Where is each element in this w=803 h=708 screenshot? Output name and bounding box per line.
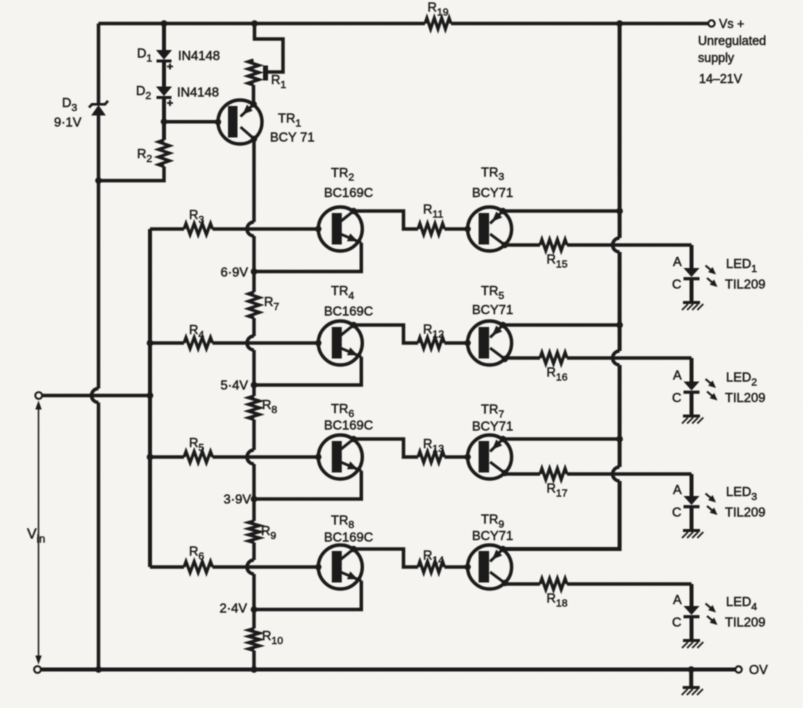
- resistor R8: [249, 396, 260, 420]
- node left vertical / 0V rail: [95, 666, 102, 673]
- transistor TR6: [315, 435, 362, 479]
- wire divider to R7: [252, 236, 256, 292]
- resistor R6: [184, 562, 213, 573]
- svg-text:BC169C: BC169C: [324, 529, 373, 544]
- resistor R16: [540, 353, 567, 364]
- resistor R3: [184, 224, 213, 235]
- wire TR7 collector to R17: [504, 473, 540, 474]
- svg-text:2·4V: 2·4V: [220, 601, 248, 616]
- svg-text:A: A: [673, 592, 682, 607]
- wire R10 to 0V rail: [252, 651, 256, 670]
- wire Vin to input bus: [42, 394, 150, 398]
- wire TR1 collector to divider: [252, 139, 256, 222]
- node supply bus / TR5 emitter: [616, 322, 623, 329]
- svg-text:5·4V: 5·4V: [221, 378, 249, 393]
- node supply bus / TR3 emitter: [616, 208, 623, 215]
- wire R1 wiper hook: [255, 24, 284, 73]
- wire supply bus seg4: [503, 481, 620, 549]
- paper grain: [0, 0, 1, 1]
- svg-text:TIL209: TIL209: [725, 505, 765, 520]
- wire TR3 emitter to supply bus: [503, 209, 620, 213]
- svg-text:A: A: [673, 254, 682, 269]
- wire TR2 collector: [354, 211, 418, 229]
- wire TR2 emitter to 6.9V tap: [254, 243, 361, 272]
- resistor R12: [418, 338, 445, 349]
- svg-text:3·9V: 3·9V: [224, 492, 252, 507]
- polarity + D1: [167, 64, 173, 70]
- node tap 2.4V: [251, 606, 258, 613]
- svg-text:A: A: [673, 482, 682, 497]
- wiper contact R1: [263, 66, 268, 81]
- ground 0V rail: [682, 670, 703, 696]
- wire LED3 anode: [690, 474, 694, 496]
- wire diode chain middle: [162, 61, 166, 87]
- svg-text:OV: OV: [749, 662, 768, 677]
- diode D1: [156, 50, 172, 60]
- svg-text:6·9V: 6·9V: [221, 265, 249, 280]
- resistor R7: [249, 292, 260, 318]
- svg-text:IN4148: IN4148: [178, 48, 220, 63]
- svg-text:C: C: [672, 505, 681, 520]
- wire supply bus seg3: [618, 365, 622, 467]
- resistor R11: [418, 224, 445, 235]
- svg-text:BC169C: BC169C: [324, 185, 373, 200]
- svg-text:C: C: [672, 277, 681, 292]
- wire hop divider over row2 base: [247, 336, 254, 350]
- wire left vertical upper: [97, 24, 101, 104]
- LED1 TIL209: [684, 266, 718, 288]
- resistor R4: [184, 338, 213, 349]
- wire diode chain bottom: [162, 98, 166, 141]
- wire input bus to R5: [150, 455, 184, 459]
- node input bus / Vin: [147, 392, 154, 399]
- wire R8 to R9: [252, 420, 256, 451]
- resistor R9: [249, 521, 260, 543]
- wire top supply rail: [99, 22, 426, 26]
- svg-text:TIL209: TIL209: [725, 277, 765, 292]
- wire R11 to TR3 base: [445, 227, 468, 231]
- svg-text:C: C: [672, 615, 681, 630]
- transistor TR2: [315, 207, 362, 251]
- svg-text:TIL209: TIL209: [725, 615, 765, 630]
- wire input bus corner to R3: [150, 227, 184, 231]
- transistor TR8: [315, 545, 362, 589]
- node input bus / R5: [147, 454, 154, 461]
- zener diode D3: [91, 105, 106, 116]
- wire LED2 cathode: [690, 392, 694, 416]
- svg-text:Vs +: Vs +: [719, 17, 744, 31]
- wire LED4 anode: [690, 584, 694, 606]
- svg-text:BCY 71: BCY 71: [270, 130, 315, 145]
- wire TR5 collector to R16: [504, 358, 540, 359]
- svg-text:14–21V: 14–21V: [699, 72, 743, 86]
- svg-text:BCY71: BCY71: [472, 528, 513, 543]
- wire LED1 anode: [690, 245, 694, 268]
- resistor R17: [540, 469, 567, 480]
- transistor TR1: [215, 100, 262, 144]
- wire TR7 emitter to supply bus: [503, 437, 620, 441]
- node D2 / R2 / TR1 base: [161, 118, 168, 125]
- svg-text:TIL209: TIL209: [725, 390, 765, 405]
- svg-text:IN4148: IN4148: [177, 85, 219, 100]
- resistor R10: [249, 629, 260, 651]
- wire TR5 emitter to supply bus: [503, 323, 620, 327]
- wire hop supply bus over LED2 wire: [613, 351, 620, 365]
- svg-text:supply: supply: [698, 51, 735, 65]
- wire R7 to R8: [252, 318, 256, 336]
- wire left vertical mid: [97, 116, 101, 389]
- wire R3 to TR2 base: [213, 227, 319, 231]
- transistor TR9: [464, 545, 511, 589]
- ground LED2: [682, 416, 703, 424]
- wire hop divider over row4 base: [247, 560, 254, 574]
- resistor R19: [425, 18, 451, 29]
- ground LED4: [682, 641, 703, 649]
- LED3 TIL209: [684, 494, 718, 516]
- wire TR6 collector: [354, 439, 418, 457]
- dimension arrow Vin: [38, 405, 40, 660]
- wire supply bus seg2: [618, 252, 622, 351]
- svg-text:A: A: [673, 368, 682, 383]
- wire TR8 emitter to 2.4V tap: [254, 581, 361, 610]
- terminal Vin bottom: [34, 666, 41, 673]
- terminal Vs+: [708, 20, 714, 26]
- transistor TR7: [464, 435, 511, 479]
- node R2 / left vertical: [95, 177, 102, 184]
- wire TR9 collector to R18: [504, 583, 540, 584]
- wire R17 to LED3: [567, 472, 692, 476]
- transistor TR3: [464, 207, 511, 251]
- wire diode chain top: [162, 24, 166, 51]
- wire TR9 emitter to supply bus: [503, 547, 620, 551]
- resistor R1: [248, 60, 259, 85]
- wire hop supply bus over LED3 wire: [613, 467, 620, 481]
- svg-text:BCY71: BCY71: [472, 302, 513, 317]
- resistor R14: [418, 562, 445, 573]
- node tap 6.9V: [251, 268, 258, 275]
- wire R2 to left vertical: [99, 167, 165, 181]
- transistor TR4: [315, 321, 362, 365]
- polarity + D2: [167, 100, 173, 106]
- wire R14 to TR9 base: [445, 565, 468, 569]
- wire R15 to LED1: [567, 243, 692, 247]
- node supply bus / TR7 emitter: [616, 436, 623, 443]
- ground LED1: [682, 303, 703, 311]
- wire 0V rail: [41, 668, 735, 672]
- node input bus / R4: [147, 340, 154, 347]
- wire divider above R10: [252, 574, 256, 629]
- wire R12 to TR5 base: [445, 341, 468, 345]
- wire LED2 anode: [690, 358, 694, 382]
- wire input bus to R4: [150, 341, 184, 345]
- LED4 TIL209: [684, 604, 718, 626]
- svg-text:Unregulated: Unregulated: [698, 34, 766, 48]
- wire R16 to LED2: [567, 356, 692, 360]
- node tap 5.4V: [251, 382, 258, 389]
- node top rail / R1: [251, 20, 258, 27]
- resistor R5: [184, 452, 213, 463]
- resistor R2: [159, 140, 170, 167]
- resistor R18: [540, 579, 567, 590]
- svg-text:BC169C: BC169C: [324, 417, 373, 432]
- node top rail / supply bus: [616, 20, 623, 27]
- node ground / 0V rail: [688, 666, 695, 673]
- node tap 3.9V: [251, 496, 258, 503]
- wire LED4 cathode: [690, 617, 694, 641]
- node divider / 0V rail: [251, 666, 258, 673]
- wire hop divider over row1 base: [247, 222, 254, 236]
- wire TR1 base: [164, 120, 218, 124]
- wire LED1 cathode: [690, 279, 694, 303]
- ground LED3: [682, 531, 703, 539]
- wire TR3 collector to R15: [504, 243, 540, 247]
- wire TR4 collector: [354, 325, 418, 343]
- transistor TR5: [464, 321, 511, 365]
- wire TR8 collector: [354, 549, 418, 567]
- wire input bus corner to R6: [150, 565, 184, 569]
- wire divider above R8: [252, 350, 256, 396]
- svg-text:BCY71: BCY71: [472, 419, 513, 434]
- wire hop left vertical over Vin wire: [92, 389, 99, 403]
- wire divider above R9: [252, 464, 256, 521]
- wire R18 to LED4: [567, 582, 692, 586]
- wire LED3 cathode: [690, 507, 694, 531]
- resistor R15: [540, 240, 567, 251]
- wire left vertical lower: [97, 403, 101, 670]
- terminal 0V: [735, 666, 741, 672]
- wire TR4 emitter to 5.4V tap: [254, 357, 361, 385]
- resistor R13: [418, 452, 445, 463]
- diode D2: [156, 87, 172, 97]
- wire TR6 emitter to 3.9V tap: [254, 471, 361, 499]
- terminal Vin top: [35, 392, 42, 399]
- node top rail / diode chain: [161, 20, 168, 27]
- wire R4 to TR4 base: [213, 341, 319, 345]
- wire R1 to TR1 emitter: [252, 85, 256, 105]
- LED2 TIL209: [684, 379, 718, 401]
- wire R5 to TR6 base: [213, 455, 319, 459]
- wire hop divider over row3 base: [247, 450, 254, 464]
- svg-text:BCY71: BCY71: [472, 185, 513, 200]
- wire supply bus upper: [618, 24, 622, 239]
- svg-text:BC169C: BC169C: [324, 303, 373, 318]
- wire input bus: [148, 229, 152, 567]
- wire R13 to TR7 base: [445, 455, 468, 459]
- svg-text:9·1V: 9·1V: [54, 115, 82, 130]
- svg-text:C: C: [672, 390, 681, 405]
- wire R9 to R10: [252, 543, 256, 561]
- wire hop supply bus over LED1 wire: [613, 238, 620, 252]
- wire R6 to TR8 base: [213, 565, 319, 569]
